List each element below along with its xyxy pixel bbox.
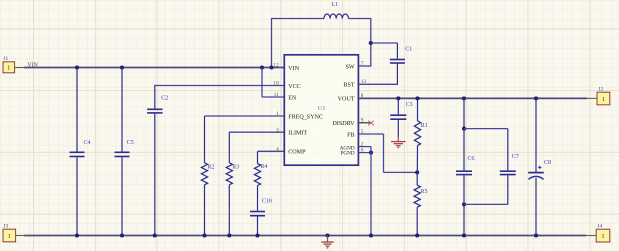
inductor L1 xyxy=(324,2,348,18)
svg-text:6: 6 xyxy=(361,147,364,153)
wire C6 lower leg xyxy=(463,175,465,235)
node PGND junction xyxy=(369,151,373,155)
wire C2 upper leg xyxy=(154,85,156,109)
wire C4 lower leg xyxy=(76,157,78,235)
node R3-GND junction xyxy=(227,233,231,237)
wire FB horizontal xyxy=(358,133,383,135)
svg-text:C4: C4 xyxy=(84,140,91,146)
wire L1 top right segment xyxy=(348,18,371,20)
svg-text:SW: SW xyxy=(345,64,354,70)
svg-text:C1: C1 xyxy=(405,47,412,53)
wire R2 lower leg xyxy=(204,185,206,236)
node C5-GND junction xyxy=(120,233,124,237)
wire AGND pin stub xyxy=(358,146,371,148)
svg-text:C8: C8 xyxy=(544,160,551,166)
U1 left pin names and numbers xyxy=(273,63,323,156)
svg-text:11: 11 xyxy=(274,92,279,98)
svg-text:C7: C7 xyxy=(512,154,519,160)
wire C7 lower leg xyxy=(507,175,509,204)
resistor R1 xyxy=(414,121,427,146)
svg-text:VIN: VIN xyxy=(288,66,299,72)
svg-text:1: 1 xyxy=(602,97,605,103)
capacitor C5 xyxy=(115,140,134,156)
wire R1 upper leg xyxy=(417,98,419,120)
svg-text:8: 8 xyxy=(361,93,364,99)
wire C7 upper leg xyxy=(507,129,509,171)
net label VIN xyxy=(27,63,38,69)
resistor R5 xyxy=(414,185,427,207)
wire AGND vertical to bus xyxy=(370,147,372,236)
connector J1 xyxy=(3,56,24,73)
node C6-GND junction xyxy=(462,233,466,237)
svg-text:7: 7 xyxy=(361,61,364,67)
svg-text:C6: C6 xyxy=(468,156,475,162)
node VOUT-C3 junction xyxy=(396,96,400,100)
wire R1 lower leg xyxy=(416,146,418,173)
svg-text:J1: J1 xyxy=(3,56,8,62)
wire R3 lower leg xyxy=(228,185,230,236)
svg-text:VOUT: VOUT xyxy=(338,97,355,103)
svg-text:1: 1 xyxy=(602,234,605,240)
wire C8 upper leg xyxy=(535,98,537,172)
U1 right pin names and numbers xyxy=(332,61,366,157)
wire EN horizontal xyxy=(262,96,284,98)
svg-text:R4: R4 xyxy=(260,164,267,170)
capacitor C7 xyxy=(500,154,519,175)
wire C10 lower leg xyxy=(257,217,259,236)
svg-text:FB: FB xyxy=(347,132,354,138)
capacitor C4 xyxy=(70,140,91,156)
wire C2 lower leg xyxy=(154,114,156,236)
svg-text:1: 1 xyxy=(276,111,279,117)
node R5-GND junction xyxy=(415,233,419,237)
svg-text:4: 4 xyxy=(276,147,279,153)
wire C3 lower leg xyxy=(397,120,399,137)
svg-text:J3: J3 xyxy=(3,223,8,229)
node VOUT-C6 junction xyxy=(462,96,466,100)
svg-text:BST: BST xyxy=(343,83,354,89)
svg-text:R1: R1 xyxy=(421,123,428,129)
svg-text:R5: R5 xyxy=(421,189,428,195)
connector J3 xyxy=(3,223,28,241)
wire PGND pin stub xyxy=(358,152,371,154)
capacitor C1 xyxy=(390,47,412,64)
wire R3 upper leg xyxy=(228,132,230,163)
svg-text:J2: J2 xyxy=(598,87,603,93)
wire C5 lower leg xyxy=(121,157,123,235)
wire R2 upper leg xyxy=(204,116,206,163)
capacitor C10 xyxy=(250,199,272,216)
svg-text:VIN: VIN xyxy=(27,63,38,69)
no-ERC marker X on pin 9 xyxy=(368,121,374,126)
node C6 bracket junction xyxy=(462,127,466,131)
wire FB vertical xyxy=(383,134,385,172)
svg-text:10: 10 xyxy=(273,81,279,87)
svg-text:R2: R2 xyxy=(207,165,214,171)
svg-text:L1: L1 xyxy=(332,2,339,8)
node C10-GND junction xyxy=(255,233,259,237)
svg-text:VCC: VCC xyxy=(288,84,301,90)
wire R4 upper leg xyxy=(257,151,259,163)
wire R4-C10 leg xyxy=(257,186,259,211)
node R2-GND junction xyxy=(202,233,206,237)
wire BST connection xyxy=(358,83,398,85)
svg-text:3: 3 xyxy=(276,127,279,133)
wire L1 left leg xyxy=(271,18,273,68)
node VIN-L1 junction xyxy=(269,65,273,69)
svg-text:PGND: PGND xyxy=(340,151,354,157)
resistor R2 xyxy=(201,163,214,185)
node VOUT-C8 junction xyxy=(534,96,538,100)
wire R5 lower leg xyxy=(416,207,418,235)
wire R5 upper leg xyxy=(416,172,418,185)
wire C3 upper leg xyxy=(397,98,399,114)
wire SW vertical xyxy=(370,18,372,66)
resistor R3 xyxy=(226,163,239,185)
wire C1 upper leg xyxy=(396,43,398,59)
wire C1 lower leg xyxy=(396,64,398,85)
svg-text:1: 1 xyxy=(7,66,10,72)
wire FB to divider xyxy=(384,171,418,173)
svg-text:ILIMIT: ILIMIT xyxy=(288,131,307,137)
wire C6 upper leg xyxy=(463,98,465,170)
svg-text:C5: C5 xyxy=(127,140,134,146)
capacitor C3 xyxy=(390,102,412,119)
svg-text:FREQ_SYNC: FREQ_SYNC xyxy=(288,114,323,120)
svg-text:C3: C3 xyxy=(406,102,413,108)
node VIN-C4 junction xyxy=(75,65,79,69)
wire ILIMIT horizontal xyxy=(229,131,284,133)
svg-text:C10: C10 xyxy=(262,199,272,205)
wire C5 upper leg xyxy=(121,68,123,152)
svg-text:COMP: COMP xyxy=(288,150,306,156)
capacitor C8 xyxy=(528,160,551,179)
node C4-GND junction xyxy=(75,233,79,237)
wire C6-C7 bottom bracket xyxy=(464,203,508,205)
node VIN-C5 junction xyxy=(120,65,124,69)
svg-text:DISDRV: DISDRV xyxy=(332,121,355,127)
node FB divider junction xyxy=(415,170,419,174)
wire SW pin stub xyxy=(358,65,371,67)
node AGND-GND bus junction xyxy=(369,233,373,237)
connector J2 xyxy=(587,87,610,105)
op-amp U1 regulator body xyxy=(284,55,358,165)
node VOUT-R1 junction xyxy=(415,96,419,100)
wire COMP horizontal xyxy=(258,150,285,152)
resistor R4 xyxy=(254,164,267,186)
wire C1 top branch xyxy=(371,42,398,44)
wire DISDRV pin stub xyxy=(358,122,371,124)
wire L1 top left segment xyxy=(272,18,325,20)
node C8-GND junction xyxy=(534,233,538,237)
capacitor C2 xyxy=(147,95,168,113)
node C2-GND junction xyxy=(153,233,157,237)
wire VOUT rail xyxy=(358,97,587,99)
node VIN-EN junction xyxy=(260,65,264,69)
node GND bus power-port junction xyxy=(325,233,329,237)
wire VCC horizontal xyxy=(155,85,284,87)
ground GND under C3 xyxy=(391,137,406,148)
wire C4 upper leg xyxy=(76,68,78,152)
capacitor C6 xyxy=(456,156,475,174)
svg-text:12: 12 xyxy=(273,63,279,69)
wire EN vertical xyxy=(261,68,263,98)
node C6 bottom bracket junction xyxy=(462,202,466,206)
svg-text:1: 1 xyxy=(8,234,11,240)
wire FREQ_SYNC horizontal xyxy=(205,115,285,117)
wire GND bus xyxy=(24,235,586,237)
ground GND on bus xyxy=(321,236,333,248)
svg-text:R3: R3 xyxy=(232,165,239,171)
svg-text:5: 5 xyxy=(361,129,364,135)
node SW-C1 junction xyxy=(369,41,373,45)
wire VIN rail xyxy=(24,67,284,69)
svg-text:9: 9 xyxy=(361,117,364,123)
wire C6-C7 top bracket xyxy=(464,128,508,130)
svg-text:13: 13 xyxy=(361,79,367,85)
wire C8 lower leg xyxy=(535,178,537,236)
svg-text:C2: C2 xyxy=(161,95,168,101)
svg-text:EN: EN xyxy=(288,95,297,101)
svg-text:J4: J4 xyxy=(597,223,602,229)
svg-text:U1: U1 xyxy=(318,105,326,112)
connector J4 xyxy=(586,223,610,242)
